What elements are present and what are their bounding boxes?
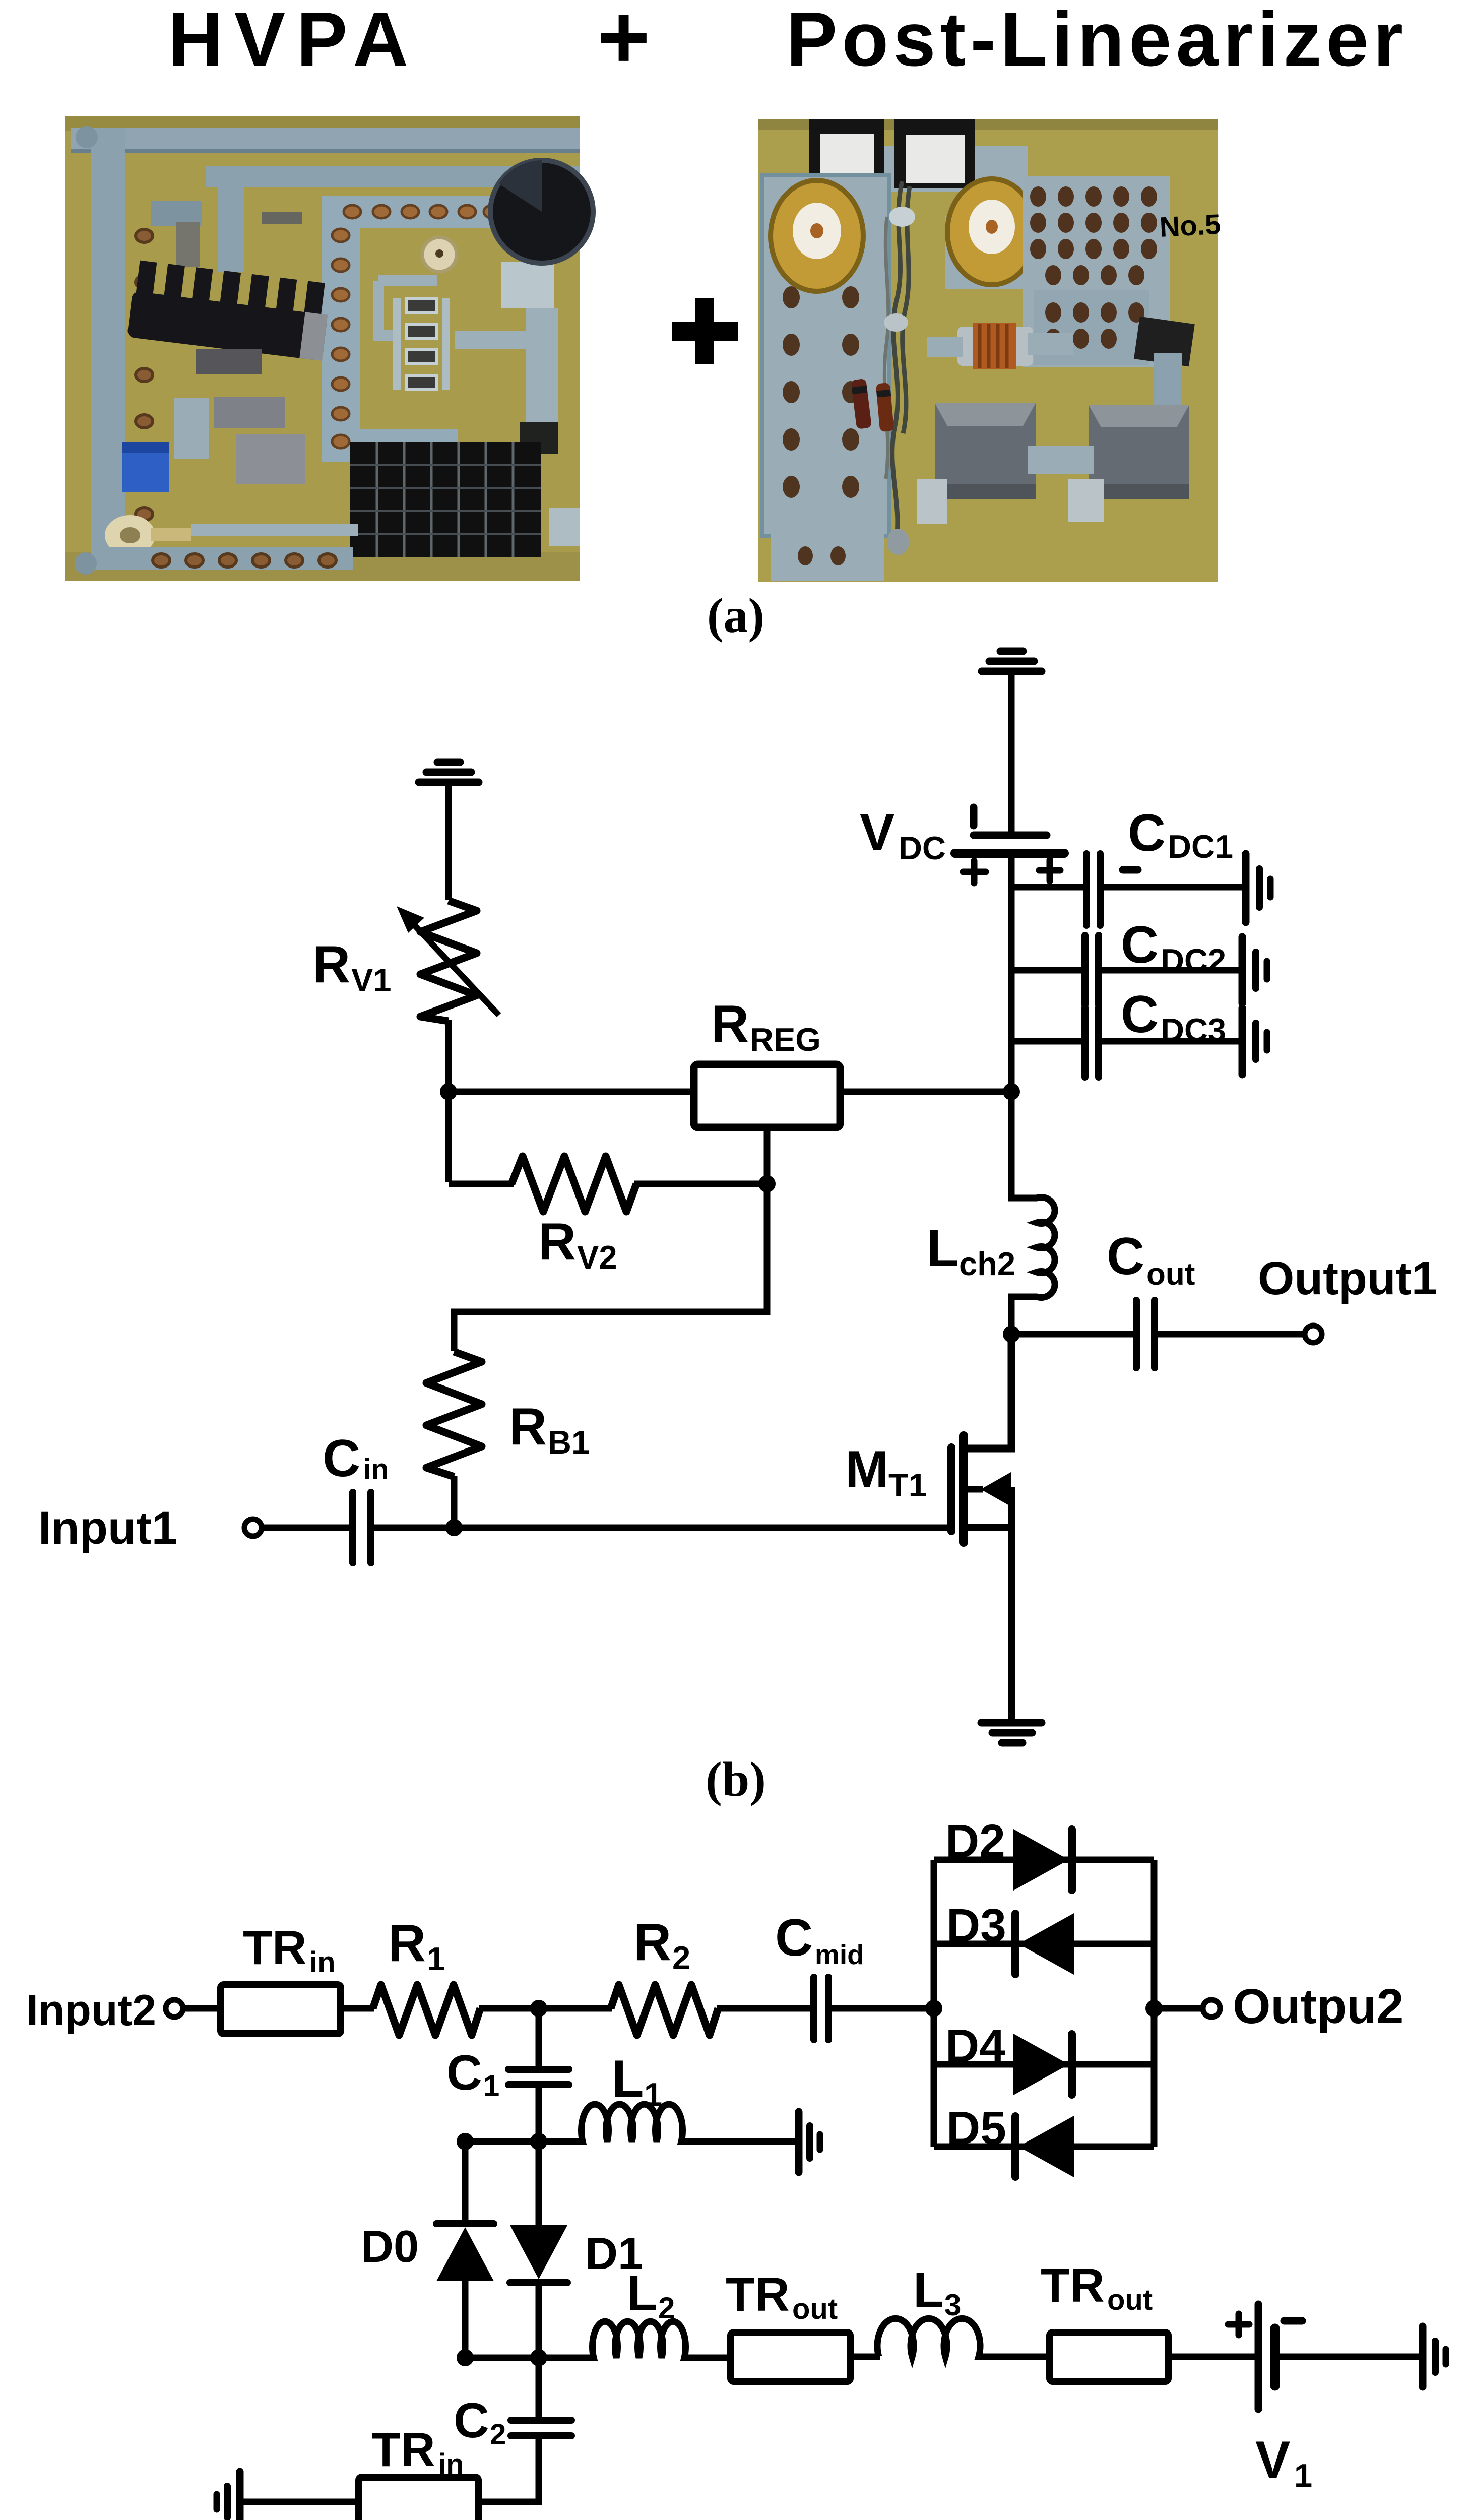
label VDC bbox=[860, 803, 946, 866]
svg-text:HVPA: HVPA bbox=[168, 0, 419, 82]
wire RB1 to input node bbox=[451, 1476, 458, 1528]
wire D1 bottom lead bbox=[536, 2283, 542, 2358]
wire Cin to gate of MT1 bbox=[371, 1525, 949, 1531]
label D2 bbox=[945, 1815, 1005, 1867]
node drain/Cout bbox=[1003, 1326, 1020, 1343]
label C2 bbox=[454, 2392, 506, 2451]
wire RV2 to node below RREG bbox=[634, 1181, 767, 1187]
wire RV1 to node bbox=[445, 1020, 452, 1095]
svg-text:D0: D0 bbox=[361, 2222, 419, 2272]
black tape right bbox=[1134, 317, 1195, 366]
silver trace second bbox=[206, 166, 580, 187]
ground (source of MT1) bbox=[981, 1723, 1042, 1743]
svg-text:M: M bbox=[845, 1440, 889, 1499]
ground (right of CDC1) bbox=[1246, 854, 1270, 922]
node input/RB1 bbox=[445, 1519, 463, 1536]
wire right rail to Outpu2 bbox=[1154, 2005, 1203, 2012]
svg-text:TR: TR bbox=[726, 2268, 790, 2321]
ground (right of CDC2) bbox=[1242, 937, 1267, 1003]
label Output1 bbox=[1258, 1252, 1437, 1304]
label TRout 2 bbox=[1041, 2259, 1153, 2316]
black component 1 with white face bbox=[809, 119, 884, 183]
wire RV1 node down to RV2 bbox=[445, 1092, 452, 1182]
wire Cmid to diode bank bbox=[828, 2005, 934, 2012]
wire to CDC3 bbox=[1008, 1038, 1081, 1045]
node J1 on VDC line bbox=[1003, 1083, 1020, 1100]
pads left column bbox=[136, 229, 153, 521]
top silver area bbox=[816, 146, 1028, 192]
wire Input2 to TRin bbox=[183, 2005, 225, 2012]
svg-text:out: out bbox=[1146, 1257, 1195, 1292]
ground (left of TRin2) bbox=[217, 2472, 240, 2520]
label L1 bbox=[612, 2050, 662, 2113]
svg-text:C: C bbox=[454, 2392, 489, 2448]
wire CDC3 to ground bbox=[1099, 1038, 1242, 1045]
svg-text:1: 1 bbox=[1294, 2457, 1312, 2494]
resistor RV1 (variable) bbox=[420, 901, 477, 1021]
transmission line TRout 2 (box) bbox=[1050, 2333, 1168, 2381]
label C1 bbox=[446, 2045, 499, 2102]
resistor R1 bbox=[373, 1985, 480, 2035]
svg-text:C: C bbox=[1128, 804, 1166, 862]
svg-text:V1: V1 bbox=[351, 962, 392, 998]
label Input2 bbox=[26, 1986, 156, 2035]
mid bracket trace bbox=[322, 196, 505, 228]
wire to CDC1 bbox=[1008, 884, 1083, 891]
capacitor Cout bbox=[1136, 1300, 1155, 1368]
node D1 top bbox=[530, 2133, 547, 2150]
svg-text:(a): (a) bbox=[707, 589, 764, 643]
svg-text:2: 2 bbox=[658, 2291, 675, 2325]
terminal Outpu2 bbox=[1203, 2000, 1220, 2017]
svg-text:L: L bbox=[913, 2262, 944, 2318]
resistor RV2 bbox=[511, 1156, 636, 1212]
wire D1 top lead bbox=[536, 2141, 542, 2225]
svg-text:in: in bbox=[363, 1453, 389, 1486]
svg-text:B1: B1 bbox=[548, 1424, 590, 1461]
body arrow of MT1 bbox=[967, 1472, 1011, 1506]
wire node to RREG bbox=[449, 1089, 698, 1095]
diode D4 bbox=[1013, 2034, 1072, 2095]
gray component blocks bbox=[196, 349, 262, 374]
wire D0 top lead bbox=[462, 2141, 469, 2224]
heatsink grid bottom bbox=[350, 442, 541, 557]
svg-text:L: L bbox=[927, 1219, 959, 1278]
svg-text:L: L bbox=[627, 2265, 658, 2321]
wire right rail of diode bank bbox=[1151, 1860, 1158, 2147]
solder blobs bbox=[889, 207, 915, 227]
svg-text:+: + bbox=[597, 0, 650, 88]
label RB1 bbox=[509, 1398, 590, 1461]
capacitor C2 bbox=[511, 2420, 571, 2436]
svg-text:DC1: DC1 bbox=[1168, 828, 1233, 865]
drain tap of MT1 bbox=[967, 1334, 1011, 1448]
diode component 1 bbox=[851, 379, 872, 429]
heatsink upper left bbox=[127, 260, 332, 361]
SMA connector right bbox=[945, 179, 1046, 289]
svg-text:ch2: ch2 bbox=[959, 1245, 1015, 1282]
wire TRin2 to ground bbox=[243, 2499, 359, 2505]
wire Input1 to Cin bbox=[262, 1525, 350, 1531]
inductor Lch2 bbox=[1011, 1095, 1055, 1334]
svg-text:TR: TR bbox=[1041, 2259, 1105, 2312]
svg-text:V: V bbox=[860, 803, 894, 862]
blue trimmer bbox=[122, 442, 169, 492]
svg-text:in: in bbox=[309, 1946, 336, 1979]
label D3 bbox=[946, 1899, 1006, 1951]
svg-text:Post-Linearizer: Post-Linearizer bbox=[786, 0, 1408, 82]
svg-text:TR: TR bbox=[371, 2423, 435, 2477]
svg-text:1: 1 bbox=[427, 1940, 445, 1977]
transmission line TRin (box) bbox=[221, 1985, 341, 2034]
diode D2 bbox=[1013, 1829, 1072, 1891]
svg-text:C: C bbox=[1107, 1227, 1144, 1286]
wire V1 to ground bbox=[1275, 2354, 1423, 2360]
wire TRin to R1 bbox=[341, 2005, 374, 2012]
electrolytic capacitor photo bbox=[490, 160, 593, 263]
svg-text:R: R bbox=[312, 935, 350, 994]
wire C1 to node bbox=[536, 2085, 542, 2141]
svg-text:DC3: DC3 bbox=[1161, 1012, 1226, 1048]
svg-text:Input1: Input1 bbox=[38, 1502, 177, 1554]
label CDC3 bbox=[1121, 985, 1226, 1048]
wire top branch bbox=[934, 1857, 1154, 1863]
node R1/C1/R2 bbox=[530, 2000, 547, 2017]
wire D0 bottom lead bbox=[462, 2281, 469, 2358]
inductor L1 bbox=[539, 2104, 795, 2141]
capacitor Cin bbox=[353, 1492, 371, 1563]
svg-text:C: C bbox=[446, 2045, 482, 2100]
holes left plate bbox=[783, 286, 859, 565]
wire TRout1 to L3 bbox=[850, 2354, 880, 2360]
wires center bbox=[892, 181, 910, 542]
transformer block 2 bbox=[1068, 405, 1189, 522]
resistor R2 bbox=[611, 1985, 718, 2035]
svg-text:mid: mid bbox=[815, 1939, 864, 1970]
label L3 bbox=[913, 2262, 961, 2322]
svg-text:R: R bbox=[388, 1914, 426, 1973]
svg-text:DC: DC bbox=[899, 830, 946, 866]
inductor with copper winding bbox=[957, 323, 1033, 369]
svg-text:D3: D3 bbox=[946, 1899, 1006, 1951]
transmission line TRout 1 (box) bbox=[731, 2333, 850, 2381]
source tap of MT1 bbox=[967, 1487, 1011, 1721]
node D0 top bbox=[457, 2133, 474, 2150]
capacitor CDC2 bbox=[1085, 935, 1099, 1005]
svg-text:R: R bbox=[633, 1913, 671, 1972]
diode D3 bbox=[1015, 1913, 1074, 1975]
big plus between photos bbox=[672, 298, 738, 364]
capacitor C1 bbox=[508, 2069, 569, 2085]
svg-text:L: L bbox=[612, 2050, 644, 2108]
label D5 bbox=[946, 2102, 1006, 2154]
terminal Input2 bbox=[166, 2000, 183, 2017]
svg-text:Output1: Output1 bbox=[1258, 1252, 1437, 1304]
wire RREG to main vertical bbox=[840, 1089, 1011, 1095]
wire battery to node J1 bbox=[1008, 853, 1015, 1095]
transistor MT1 (NMOS) bbox=[951, 1436, 964, 1542]
label Cin bbox=[323, 1429, 389, 1488]
svg-text:REG: REG bbox=[750, 1021, 821, 1058]
svg-text:Input2: Input2 bbox=[26, 1986, 156, 2035]
svg-text:Outpu2: Outpu2 bbox=[1233, 1979, 1403, 2034]
svg-text:1: 1 bbox=[644, 2076, 662, 2113]
wire RREG bottom stem bbox=[764, 1127, 771, 1184]
node RV1/RREG bbox=[440, 1083, 457, 1100]
resistor RB1 bbox=[426, 1352, 482, 1477]
label R2 bbox=[633, 1913, 690, 1976]
polarity plus of CDC1 bbox=[1039, 860, 1060, 881]
label V1 bbox=[1255, 2431, 1312, 2494]
silver link between transformers bbox=[1028, 446, 1094, 474]
label Input1 bbox=[38, 1502, 177, 1554]
label D4 bbox=[945, 2020, 1005, 2072]
ground (right of L1) bbox=[799, 2112, 820, 2172]
wire node down to C2 bbox=[536, 2358, 542, 2420]
PCB photo left bbox=[65, 116, 593, 581]
label L2 bbox=[627, 2265, 675, 2325]
small RF connector and diode cluster center bbox=[422, 237, 457, 272]
label TRin bbox=[243, 1921, 336, 1979]
label D1 bbox=[585, 2229, 643, 2279]
wire bottom branch bbox=[934, 2144, 1154, 2150]
label Lch2 bbox=[927, 1219, 1015, 1282]
svg-text:C: C bbox=[1121, 916, 1159, 974]
label D0 bbox=[361, 2222, 419, 2272]
capacitor CDC3 bbox=[1085, 1007, 1099, 1077]
svg-text:(b): (b) bbox=[706, 1752, 766, 1807]
label TRout 1 bbox=[726, 2268, 838, 2325]
label Cmid bbox=[775, 1909, 864, 1970]
SMA connector left bbox=[771, 180, 863, 291]
wire node bridge bottom bbox=[465, 2355, 539, 2361]
svg-text:out: out bbox=[1107, 2284, 1153, 2316]
silver strip left bbox=[91, 128, 125, 558]
small parts upper left bbox=[151, 201, 202, 226]
connector bottom left bbox=[105, 515, 155, 555]
label TRin 2 bbox=[371, 2423, 464, 2481]
wire to CDC2 bbox=[1008, 967, 1081, 974]
wire to RV2 bbox=[449, 1181, 514, 1187]
wire node down and left to RB1 bbox=[454, 1184, 767, 1351]
battery V1 bbox=[1258, 2304, 1275, 2409]
label CDC1 bbox=[1128, 804, 1233, 865]
inductor L3 bbox=[877, 2318, 1050, 2357]
node left rail bbox=[925, 2000, 942, 2017]
wire TRout2 to V1 bbox=[1168, 2354, 1258, 2360]
wire D4 branch bbox=[934, 2061, 1154, 2068]
diode D1 bbox=[510, 2225, 567, 2283]
svg-text:V2: V2 bbox=[577, 1239, 617, 1276]
wire CDC2 to ground bbox=[1099, 967, 1242, 974]
ground (right of CDC3) bbox=[1242, 1008, 1267, 1075]
diode D5 bbox=[1015, 2116, 1074, 2177]
label R1 bbox=[388, 1914, 445, 1977]
battery VDC bbox=[955, 807, 1064, 883]
polarity minus of V1 bbox=[1284, 2317, 1302, 2325]
right plate with holes bbox=[1023, 176, 1170, 367]
svg-text:T1: T1 bbox=[888, 1467, 927, 1503]
svg-text:C: C bbox=[1121, 985, 1159, 1044]
svg-text:TR: TR bbox=[243, 1921, 307, 1975]
capacitor CDC1 bbox=[1086, 854, 1100, 925]
left plate bbox=[762, 175, 889, 536]
ground (right of V1) bbox=[1423, 2326, 1446, 2387]
label MT1 bbox=[845, 1440, 927, 1503]
arrow of RV1 bbox=[397, 906, 499, 1015]
wire R2 to Cmid bbox=[717, 2005, 810, 2012]
bottom silver strip and pads bbox=[91, 547, 353, 570]
transmission line TRin 2 (box) bbox=[359, 2477, 478, 2520]
diode component 2 bbox=[876, 383, 894, 432]
svg-text:D2: D2 bbox=[945, 1815, 1005, 1867]
svg-text:DC2: DC2 bbox=[1161, 942, 1226, 979]
wire node down to C1 bbox=[536, 2008, 542, 2069]
label Outpu2 bbox=[1233, 1979, 1403, 2034]
svg-text:3: 3 bbox=[944, 2288, 961, 2322]
svg-text:1: 1 bbox=[483, 2069, 499, 2102]
svg-text:out: out bbox=[792, 2293, 838, 2325]
wire Cout to Output1 bbox=[1155, 1331, 1304, 1338]
label RV2 bbox=[538, 1213, 617, 1276]
wire node bridge top bbox=[465, 2138, 539, 2145]
label Cout bbox=[1107, 1227, 1195, 1292]
svg-text:C: C bbox=[323, 1429, 360, 1488]
wire left rail of diode bank bbox=[931, 1860, 937, 2147]
transformer block 1 bbox=[917, 403, 1036, 524]
wire ground to RV1 bbox=[445, 782, 452, 900]
ground (top of RV1) bbox=[419, 762, 479, 782]
svg-text:V: V bbox=[1255, 2431, 1290, 2489]
silver trace top bbox=[71, 128, 580, 152]
diode D0 bbox=[436, 2224, 494, 2281]
ground (top of VDC) bbox=[982, 651, 1042, 671]
svg-text:2: 2 bbox=[672, 1939, 690, 1976]
svg-text:D5: D5 bbox=[946, 2102, 1006, 2154]
svg-text:R: R bbox=[538, 1213, 576, 1271]
svg-text:in: in bbox=[438, 2448, 464, 2481]
resistor RREG (box) bbox=[694, 1064, 840, 1127]
wire R1 to node bbox=[479, 2005, 612, 2012]
node right rail bbox=[1145, 2000, 1163, 2017]
black component 2 with white face bbox=[894, 119, 975, 188]
svg-text:R: R bbox=[509, 1398, 547, 1456]
wire D3 branch bbox=[934, 1941, 1154, 1947]
svg-text:C: C bbox=[775, 1909, 813, 1967]
label RV1 bbox=[312, 935, 392, 998]
label CDC2 bbox=[1121, 916, 1226, 979]
svg-text:R: R bbox=[711, 995, 749, 1053]
svg-text:D4: D4 bbox=[945, 2020, 1005, 2072]
node D0 bottom bbox=[457, 2349, 474, 2366]
svg-text:No.5: No.5 bbox=[1159, 208, 1221, 243]
wire node to Cout bbox=[1011, 1331, 1133, 1338]
node below RREG bbox=[758, 1175, 776, 1192]
label RREG bbox=[711, 995, 821, 1058]
node D1 bottom bbox=[530, 2349, 547, 2366]
polarity plus of V1 bbox=[1228, 2314, 1249, 2335]
terminal Output1 bbox=[1305, 1326, 1322, 1343]
capacitor Cmid bbox=[814, 1977, 828, 2040]
terminal Input1 bbox=[244, 1519, 262, 1536]
wire CDC1 to ground bbox=[1100, 884, 1246, 891]
wire C2 down and left to TRin2 bbox=[478, 2436, 539, 2502]
svg-text:2: 2 bbox=[490, 2418, 506, 2451]
polarity minus of CDC1 bbox=[1123, 866, 1138, 874]
PCB photo right bbox=[758, 119, 1222, 582]
inductor L2 bbox=[539, 2321, 731, 2358]
wire ground to battery VDC bbox=[1008, 671, 1015, 833]
